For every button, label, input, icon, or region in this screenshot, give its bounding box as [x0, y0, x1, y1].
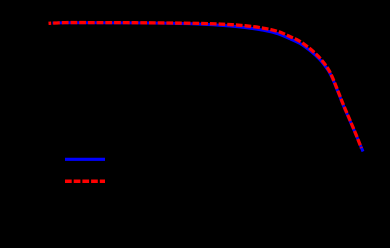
curve series 2 (red dashed, on top): [49, 23, 362, 148]
legend sample: blue solid: [65, 158, 105, 161]
curve series 1 (blue solid): [53, 23, 364, 152]
legend sample: red dashed: [65, 180, 105, 184]
